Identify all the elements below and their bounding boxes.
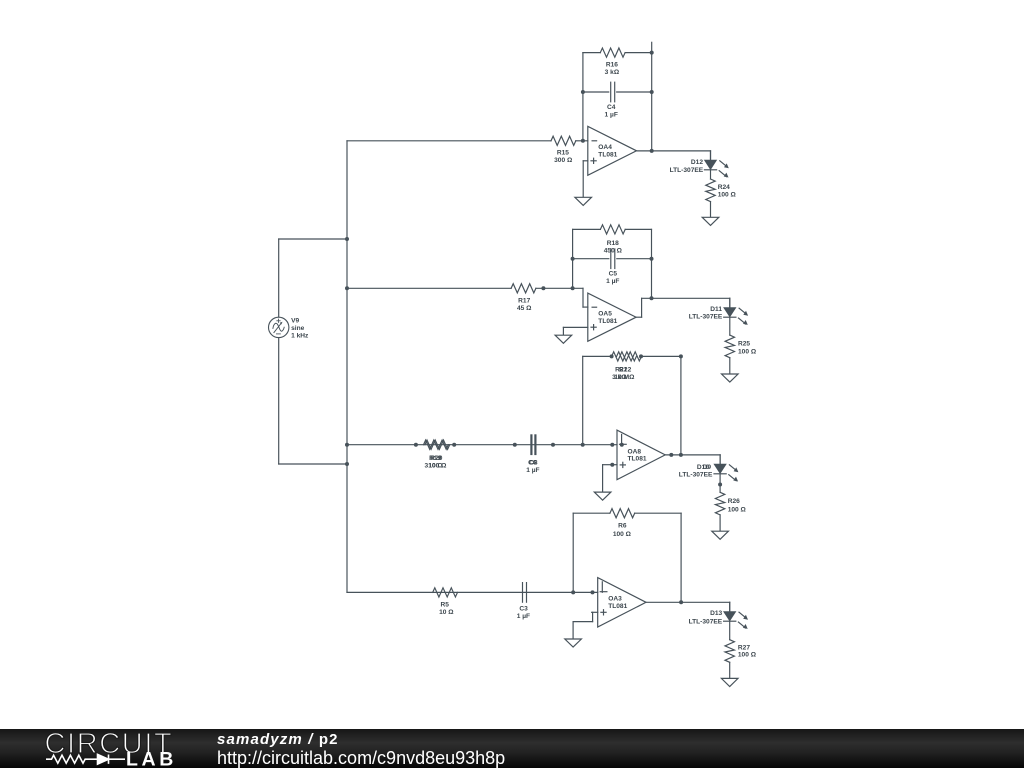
voltage source V9 sine (269, 317, 289, 337)
op-amp OA4 (588, 126, 637, 175)
wire to C5 left plate (573, 258, 609, 260)
wire OA8 + to ground (602, 465, 604, 492)
wire output step up (641, 298, 643, 317)
svg-text:R17: R17 (518, 297, 530, 304)
wire OA3 output (646, 601, 730, 603)
capacitor C8 (overlapped) (532, 435, 536, 455)
wire to D12 (710, 151, 712, 161)
svg-text:45 Ω: 45 Ω (517, 305, 532, 312)
node overlapped feedback resistor terminal left (610, 354, 614, 358)
wire R15 to OA4 inverting input (576, 140, 588, 142)
node stage2 wire junction (541, 286, 545, 290)
svg-text:D12: D12 (691, 159, 703, 166)
capacitor C3 (523, 583, 527, 603)
wire OA4 output (637, 150, 711, 152)
node stage1 feedback junction (581, 139, 585, 143)
node output/feedback junction stage2 (650, 296, 654, 300)
svg-text:OA5: OA5 (598, 311, 612, 318)
LED D13 (724, 602, 748, 629)
svg-text:1 µF: 1 µF (605, 112, 618, 119)
node overlapped resistor terminal left (414, 443, 418, 447)
wire to D13 (729, 602, 731, 612)
svg-text:R16: R16 (606, 61, 618, 68)
op-amp OA8 (617, 430, 665, 480)
svg-text:C4: C4 (607, 104, 616, 111)
node stage3 feedback junction (581, 443, 585, 447)
LED D11 (724, 298, 748, 325)
wire stage1 feedback right vertical with stub (651, 42, 653, 151)
ground stage4 non-inverting (565, 639, 582, 647)
svg-text:TL081: TL081 (598, 318, 617, 325)
wire stage2 feedback left vertical (572, 229, 574, 288)
wire stage4 feedback right vertical (680, 513, 682, 602)
wire + step down (592, 612, 594, 621)
resistor R19 (overlapped pair) (424, 440, 449, 449)
svg-text:C3: C3 (519, 605, 528, 612)
wire R26 to ground (719, 515, 721, 531)
resistor R15 (551, 136, 576, 145)
svg-text:D11: D11 (710, 306, 722, 313)
node C4 right junction (650, 90, 654, 94)
op-amp OA5 (588, 293, 636, 341)
wire V9 upper lead (278, 239, 280, 317)
ground stage1 LED (702, 217, 719, 225)
wire stage3 input (347, 444, 617, 446)
svg-text:10 MΩ: 10 MΩ (614, 374, 635, 381)
svg-text:R6: R6 (618, 522, 627, 529)
resistor R6 (610, 509, 635, 518)
ground stage3 non-inverting (594, 492, 611, 500)
node output/feedback junction stage4 (679, 600, 683, 604)
node bus/V9-top junction (345, 237, 349, 241)
svg-text:TL081: TL081 (598, 151, 617, 158)
svg-text:LTL-307EE: LTL-307EE (689, 314, 723, 321)
wire LED to R26 (719, 474, 721, 493)
node stage4 inverting wire dot (591, 590, 595, 594)
wire feedback to right vertical (641, 355, 681, 357)
wire stage2 output (642, 297, 730, 299)
ground stage1 non-inverting (575, 197, 592, 205)
wire R17 to OA5 (536, 287, 583, 289)
svg-text:TL081: TL081 (608, 603, 627, 610)
capacitor C5 (611, 249, 615, 269)
node stage3 output dot (669, 453, 673, 457)
ground stage3 LED (712, 531, 729, 539)
wire to R18 (573, 228, 601, 230)
svg-text:V9: V9 (291, 317, 299, 324)
wire to D11 (729, 298, 731, 308)
wire stage3 feedback right vertical (680, 356, 682, 455)
capacitor C6 (overlapped) (531, 435, 535, 455)
wire into OA5 - input (583, 306, 588, 308)
node feedback corner junction (679, 354, 683, 358)
node bus/V9-bottom junction (345, 462, 349, 466)
capacitor C4 (611, 82, 615, 102)
svg-text:OA4: OA4 (598, 144, 612, 151)
node bus/stage2 junction (345, 286, 349, 290)
svg-text:LTL-307EE: LTL-307EE (689, 618, 723, 625)
resistor R26 (715, 492, 724, 515)
svg-text:300 Ω: 300 Ω (554, 157, 573, 164)
svg-text:R5: R5 (440, 601, 449, 608)
node output/feedback junction stage3 (679, 453, 683, 457)
wire R24 to ground (710, 202, 712, 218)
wire D11 to R25 (729, 317, 731, 335)
wire to feedback resistors (583, 355, 612, 357)
ground stage2 non-inverting (555, 335, 572, 343)
svg-text:R27: R27 (738, 644, 750, 651)
svg-text:100 Ω: 100 Ω (613, 531, 632, 538)
node C5 right junction (650, 257, 654, 261)
resistor R24 (706, 179, 715, 202)
svg-text:1 µF: 1 µF (517, 613, 530, 620)
resistor R21 feedback (overlapped pair) (612, 352, 637, 361)
svg-text:R25: R25 (738, 341, 750, 348)
wire OA8 output (665, 454, 720, 456)
svg-text:450 Ω: 450 Ω (604, 248, 623, 255)
resistor R5 (433, 588, 458, 597)
wire to R6 (573, 512, 610, 514)
svg-text:R20: R20 (430, 455, 442, 462)
wire OA3 + input stub (592, 611, 598, 613)
svg-text:R26: R26 (728, 498, 740, 505)
svg-text:C8: C8 (529, 459, 538, 466)
svg-text:100 Ω: 100 Ω (728, 506, 747, 513)
node stage3 inverting wire dot (610, 443, 614, 447)
svg-text:LTL-307EE: LTL-307EE (679, 472, 713, 479)
svg-text:LTL-307EE: LTL-307EE (670, 167, 704, 174)
svg-text:1 kHz: 1 kHz (291, 332, 309, 339)
wire OA5 output stub (636, 316, 642, 318)
wire R25 to ground (729, 358, 731, 374)
wire C5 right plate to vertical (617, 258, 652, 260)
wire stage2 input (347, 287, 511, 289)
wire R18 to right vertical (625, 228, 651, 230)
svg-text:TL081: TL081 (628, 456, 647, 463)
node bus/stage3 junction (345, 443, 349, 447)
wire OA4 + input stub (583, 160, 588, 162)
svg-text:D10: D10 (697, 464, 709, 471)
resistor R17 (511, 284, 536, 293)
svg-text:100 Ω: 100 Ω (738, 652, 757, 659)
wire stage1 feedback left vertical (582, 53, 584, 141)
svg-text:100 Ω: 100 Ω (738, 348, 757, 355)
svg-text:100 Ω: 100 Ω (718, 191, 737, 198)
node overlapped resistor terminal right (452, 443, 456, 447)
main vertical bus from source to all stage inputs (346, 141, 348, 593)
svg-text:OA8: OA8 (628, 448, 642, 455)
LED D9 (overlapped with D10) (714, 455, 738, 482)
op-amp OA3 (598, 578, 646, 627)
node stage3 inverting input dot (620, 443, 624, 447)
CircuitLab logo resistor-diode squiggle (46, 754, 125, 764)
svg-text:R18: R18 (607, 240, 619, 247)
svg-text:1 µF: 1 µF (606, 278, 619, 285)
wire stage2 feedback right vertical (651, 229, 653, 298)
ground stage4 LED (721, 678, 738, 686)
svg-text:C5: C5 (609, 271, 618, 278)
wire stage1 input (347, 140, 551, 142)
wire R16 to right vertical (625, 52, 652, 54)
resistor R16 (600, 48, 625, 57)
node stage2 feedback junction (571, 286, 575, 290)
svg-text:sine: sine (291, 325, 305, 332)
svg-text:10 Ω: 10 Ω (439, 609, 454, 616)
wire step down to OA5 inverting input (582, 288, 584, 307)
node C4 left junction (581, 90, 585, 94)
svg-text:OA3: OA3 (608, 596, 622, 603)
wire V9 bottom branch (279, 463, 347, 465)
resistor R27 (725, 640, 734, 663)
wire stage4 input (347, 591, 598, 593)
wire to C4 left plate (583, 91, 609, 93)
node overlapped capacitor terminal left (513, 443, 517, 447)
wire + horizontal to ground leg (573, 621, 593, 623)
wire stage3 feedback left vertical (582, 356, 584, 444)
node stage4 feedback junction (571, 590, 575, 594)
wire OA8 + input stub (603, 464, 617, 466)
wire to R16 (583, 52, 600, 54)
svg-text:D13: D13 (710, 610, 722, 617)
svg-text:100 Ω: 100 Ω (428, 462, 447, 469)
node R16/stub junction (650, 51, 654, 55)
wire V9 lower lead (278, 338, 280, 464)
resistor R20 (overlapped pair) (425, 440, 450, 449)
wire stage4 feedback left vertical (572, 513, 574, 592)
node overlapped feedback resistor terminal right (639, 354, 643, 358)
ground stage2 LED (722, 374, 739, 382)
wire to D9/D10 (719, 455, 721, 465)
resistor R22 feedback (overlapped pair) (617, 352, 642, 361)
svg-text:LAB: LAB (126, 749, 177, 768)
wire OA5 + to ground (562, 327, 564, 335)
node output/feedback junction stage1 (650, 149, 654, 153)
svg-text:3 kΩ: 3 kΩ (605, 69, 620, 76)
node overlapped LED terminal (718, 483, 722, 487)
wire OA3 + to ground (572, 622, 574, 639)
wire OA5 + input stub (563, 326, 587, 328)
resistor R25 (725, 335, 734, 358)
wire R6 to right vertical (635, 512, 681, 514)
resistor R18 (600, 225, 625, 234)
node overlapped capacitor terminal right (551, 443, 555, 447)
wire OA4 + to ground (582, 161, 584, 198)
wire V9 top branch (279, 238, 347, 240)
node stage3 + input dot (610, 463, 614, 467)
LED D12 (704, 151, 728, 178)
wire D12 to R24 (710, 170, 712, 179)
svg-text:1 µF: 1 µF (526, 467, 539, 474)
wire R27 to ground (729, 662, 731, 678)
svg-text:R22: R22 (619, 366, 631, 373)
node C5 left junction (571, 257, 575, 261)
wire D13 to R27 (729, 621, 731, 640)
svg-text:R15: R15 (557, 150, 569, 157)
wire C4 right plate to vertical (617, 91, 652, 93)
svg-text:R24: R24 (718, 184, 730, 191)
